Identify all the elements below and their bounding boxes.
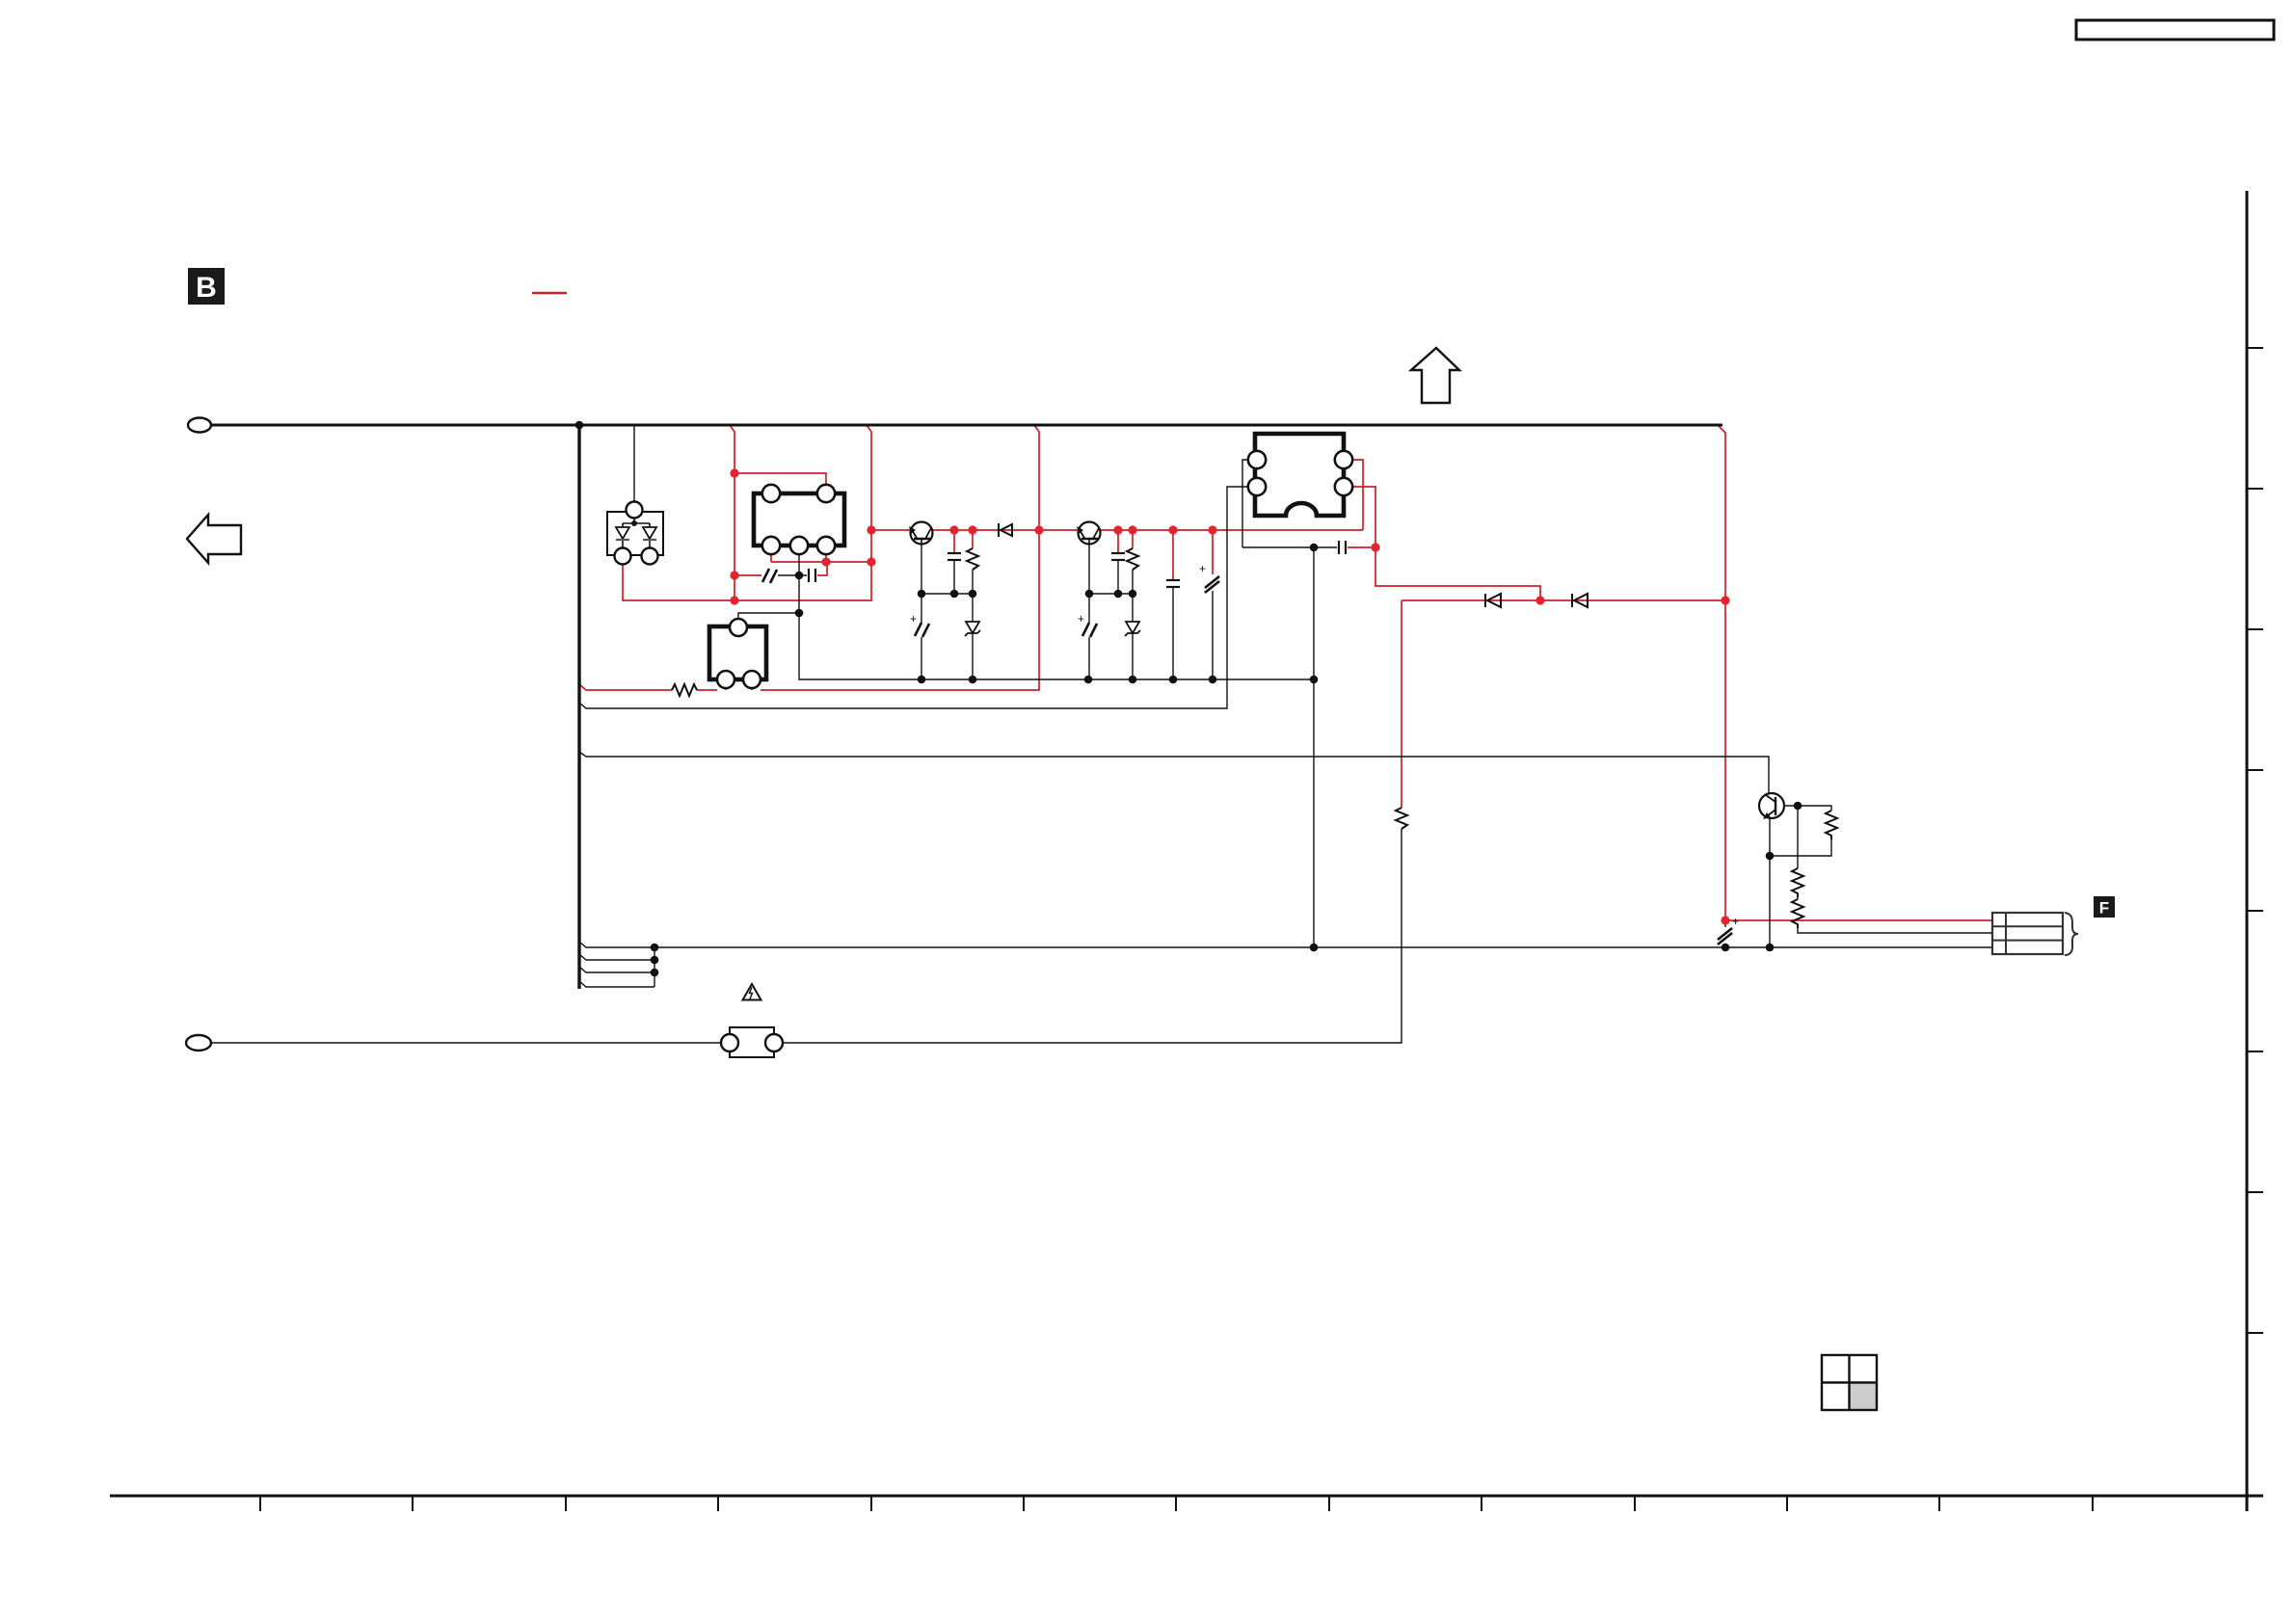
wire: RY1 bottom-left pin stub	[770, 554, 772, 562]
fuse F1	[721, 1027, 783, 1057]
junction dots red	[730, 468, 1729, 924]
wire: y785 line to Q3 collector	[579, 752, 1769, 793]
wire: red segment to electrolytic C1	[734, 574, 761, 576]
wire: RY1 bottom-right pin stub	[825, 554, 827, 562]
wire: cap riser to rail y583	[817, 563, 827, 575]
wire: RY2 top pin to node	[738, 613, 799, 619]
relay RY3	[1248, 434, 1352, 516]
resistor R5	[1826, 811, 1837, 839]
relay RY1	[754, 485, 844, 554]
wire: RY3 top-left pin wire	[1242, 460, 1248, 547]
wire: rail y983	[654, 946, 1992, 948]
connector terminal oval top	[188, 418, 211, 433]
electrolytic C5	[1078, 612, 1097, 637]
black wires	[211, 425, 1992, 1043]
bottom right corner overhang	[2247, 1495, 2263, 1497]
wire: rail y616 group2	[1089, 593, 1133, 595]
wire: vertical bus x601	[577, 425, 580, 989]
page frame: bottom border	[110, 1495, 2263, 1498]
wire: D4 stubs	[1132, 594, 1134, 622]
wire: RY3 top-right pin to row end	[1352, 460, 1363, 530]
warning triangle	[743, 984, 761, 1000]
resistor R7	[1792, 899, 1803, 928]
wire: resistor R3 stub	[1132, 530, 1134, 548]
diode D3 on row	[999, 523, 1012, 537]
diode D6	[1572, 594, 1588, 607]
resistor R1 (red line y716)	[672, 684, 697, 696]
wire: C6 lower stub	[1172, 588, 1174, 679]
pcb location grid icon	[1822, 1355, 1877, 1410]
relay RY2	[709, 619, 766, 688]
wire: resistor R2 stub	[972, 530, 974, 548]
transistor Q1	[909, 522, 933, 545]
resistor R3	[1127, 548, 1138, 570]
capacitor C1 electrolytic (y597)	[762, 569, 777, 583]
wire: bottom line from terminal	[211, 1042, 721, 1044]
wire: dual diode feed from bus	[633, 425, 635, 502]
wire: R5 loop	[1798, 806, 1831, 811]
wire: red feed to RY1 coil pin	[734, 473, 826, 486]
zener D2	[965, 622, 980, 636]
wire: cap line y568	[1242, 546, 1337, 548]
bottom border ticks	[260, 1496, 2093, 1511]
resistor R2	[967, 548, 978, 570]
up arrow	[1411, 348, 1459, 403]
wire: red rail y583	[771, 561, 871, 563]
wire: red bottom line right + riser x1078	[761, 425, 1039, 690]
capacitor C1b film (y597)	[809, 569, 815, 582]
wire: drop x1454 to resistor R4	[1401, 600, 1402, 808]
wire: C4 lower stub	[1117, 561, 1119, 594]
wire: bus stub y1009	[579, 967, 654, 972]
wire: bus stub y1024	[579, 981, 654, 987]
connector CN-F	[1992, 913, 2063, 954]
wire: bus stub y996	[579, 954, 654, 960]
wire: Q2 emitter	[1088, 539, 1090, 594]
label F	[2094, 896, 2115, 918]
page frame: right border	[2246, 191, 2249, 1511]
wire: R2 lower stub	[972, 570, 974, 594]
wire: jog down to diode row	[1375, 547, 1540, 600]
wire: red segment cap to node	[1348, 546, 1375, 548]
wire: red row y556	[871, 529, 1363, 531]
wire: C8 stubs	[1724, 920, 1726, 927]
wire: vertical x679	[654, 947, 655, 987]
wire: cap C6 stub	[1172, 530, 1174, 579]
right border ticks	[2247, 348, 2263, 1333]
wire: Q3 emitter	[1769, 818, 1771, 947]
wire: x904 riser bus to dual-diode output	[623, 425, 871, 600]
curly brace	[2065, 913, 2078, 955]
capacitor C6	[1166, 580, 1180, 587]
svg-text:+: +	[1199, 562, 1206, 575]
wire: R6 R7 chain to connector row2	[1797, 806, 1799, 868]
wire: Q1 emitter	[921, 539, 922, 594]
wire: diode row y623	[1402, 599, 1725, 601]
wire: RY3 bottom-right pin to cap node	[1352, 487, 1375, 547]
red reference mark	[532, 292, 567, 295]
wire: C7 lower stub	[1212, 591, 1214, 679]
svg-text:F: F	[2099, 899, 2109, 918]
capacitor C2	[948, 553, 961, 560]
wire: rail y616 group1	[921, 593, 973, 595]
wire: Q3 base	[1776, 805, 1798, 807]
red wires	[579, 425, 1992, 920]
connector terminal oval bottom	[186, 1035, 211, 1051]
wire: R3 lower stub	[1132, 570, 1134, 594]
capacitor C9 (y568)	[1339, 541, 1346, 554]
title block box top right	[2076, 20, 2274, 40]
section label B	[188, 268, 225, 305]
diode D5	[1485, 594, 1501, 607]
svg-text:+: +	[910, 612, 917, 625]
electrolytic C8	[1718, 915, 1739, 945]
wire: RY2 pin stubs	[725, 688, 727, 690]
D1 pins	[627, 502, 643, 519]
junction dots black	[575, 421, 1802, 977]
transistor Q3	[1759, 793, 1784, 819]
zener D4	[1125, 622, 1140, 636]
svg-text:+: +	[1078, 612, 1084, 625]
wire: red riser x762 from bus	[730, 425, 734, 600]
left arrow	[187, 515, 241, 563]
wire: C5 stubs	[1088, 594, 1090, 623]
wire: electrolytic C7 stub	[1212, 530, 1214, 574]
resistor R6	[1792, 868, 1803, 897]
wire: y597 link between caps	[778, 574, 807, 576]
wire: R4 lower to bottom line and fuse	[783, 829, 1402, 1043]
wire: C2 lower stub	[953, 561, 955, 594]
wire: main top bus	[211, 424, 1722, 427]
wire: RY3 bottom-left pin to bus	[579, 487, 1248, 708]
wire: bus stub y983	[579, 942, 654, 947]
svg-text:B: B	[196, 272, 217, 304]
wire: riser x1363	[1313, 547, 1315, 947]
D1 diode b	[643, 527, 656, 539]
wire: cap C4 stub	[1117, 530, 1119, 552]
resistor R4	[1396, 808, 1407, 829]
wire: red bottom line left (through R1)	[579, 684, 672, 690]
wire: cap C2 stub	[953, 530, 955, 552]
svg-text:+: +	[1732, 915, 1739, 928]
component symbols	[672, 523, 1837, 945]
wire: RY1 bottom-middle pin down and rail y702	[799, 554, 1314, 679]
wire: C3 stubs	[921, 594, 922, 623]
D1 internal wires	[623, 518, 650, 548]
wire: D2 stubs	[972, 594, 974, 622]
wire: red main riser x1790	[1718, 425, 1725, 920]
capacitor C4	[1111, 553, 1125, 560]
electrolytic C7	[1199, 562, 1219, 593]
wire: red to connector row1	[1725, 919, 1992, 921]
D1 diode a	[616, 527, 629, 539]
D1 internal node	[631, 520, 637, 526]
dual diode D1 assembly	[607, 502, 663, 565]
transistor Q2	[1077, 522, 1101, 545]
electrolytic C3	[910, 612, 929, 637]
